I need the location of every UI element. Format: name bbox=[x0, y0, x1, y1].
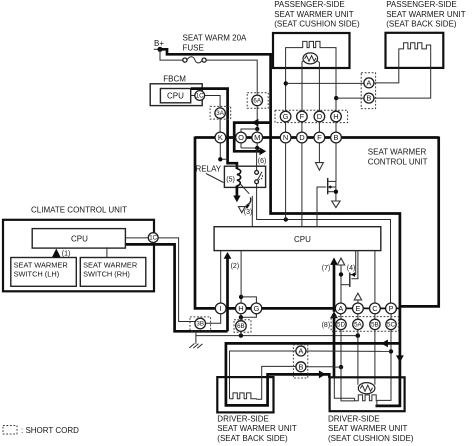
short cord 6A bbox=[247, 93, 268, 109]
wire wrap rectangle around O/M (thick) bbox=[234, 123, 270, 152]
short cord 3B bbox=[190, 317, 211, 331]
svg-text:CPU: CPU bbox=[294, 235, 311, 244]
wire 6A to junction bbox=[256, 106, 258, 129]
arrow down B+ feed bbox=[396, 355, 404, 362]
svg-text:CONTROL UNIT: CONTROL UNIT bbox=[368, 157, 428, 166]
wire back heater right to B bbox=[374, 52, 431, 99]
svg-text:(SEAT BACK SIDE): (SEAT BACK SIDE) bbox=[217, 434, 288, 443]
connector B driver bbox=[296, 362, 306, 372]
open triangle ground F bbox=[316, 163, 324, 171]
svg-text:M: M bbox=[254, 133, 260, 142]
svg-text:CPU: CPU bbox=[167, 92, 184, 101]
seat warmer switch LH box bbox=[11, 258, 77, 287]
svg-text:SEAT WARM 20A: SEAT WARM 20A bbox=[183, 33, 248, 42]
open triangle (3) bbox=[238, 207, 245, 213]
wire junction to A passenger bbox=[286, 82, 364, 84]
driver back unit box bbox=[217, 377, 273, 412]
transistor Q2 (4) bbox=[341, 251, 358, 287]
node 5D junction bbox=[339, 365, 343, 369]
open triangle (4) battery bbox=[337, 258, 344, 265]
FBCM unit box bbox=[150, 84, 202, 106]
node 5C A-wire junction bbox=[389, 349, 393, 353]
short cord 6B bbox=[234, 320, 251, 333]
wire coil to arrow (thick) bbox=[236, 186, 239, 197]
svg-text:FUSE: FUSE bbox=[183, 44, 204, 53]
CPU box climate bbox=[32, 229, 125, 249]
connector 5C bbox=[386, 319, 396, 329]
connector G bottom bbox=[251, 303, 262, 314]
svg-text:5A: 5A bbox=[354, 322, 362, 329]
wire B junction into cushion unit bbox=[334, 376, 354, 398]
wire 5C column bbox=[377, 330, 391, 401]
svg-text:(1): (1) bbox=[62, 251, 71, 258]
connector A passenger bbox=[364, 78, 374, 88]
svg-text:SWITCH (RH): SWITCH (RH) bbox=[83, 270, 130, 279]
wire 5B column to thermistor bbox=[374, 330, 376, 385]
open triangle above E bbox=[354, 293, 361, 300]
svg-text:SEAT WARMER: SEAT WARMER bbox=[14, 260, 68, 269]
connector 1C climate bbox=[148, 233, 158, 243]
wire B column to MOSFET drain bbox=[328, 143, 336, 182]
svg-text:3A: 3A bbox=[216, 110, 224, 117]
seat warmer switch RH box bbox=[80, 258, 146, 287]
CPU box seat warmer control unit bbox=[214, 227, 381, 251]
relay action squiggle (3) bbox=[241, 185, 250, 194]
node H top junction bbox=[239, 295, 243, 299]
wire ground rail (thick) bbox=[125, 244, 227, 331]
svg-text:(SEAT CUSHION SIDE): (SEAT CUSHION SIDE) bbox=[328, 434, 414, 443]
connector O bbox=[236, 132, 247, 143]
arrow up (1) LH switch to CPU bbox=[52, 249, 60, 258]
wire (7) sense line (thick) bbox=[333, 264, 336, 311]
svg-text:(3): (3) bbox=[244, 209, 253, 216]
wire (2) ground drop (thick) bbox=[226, 258, 229, 331]
wire bus drop to I (thick) bbox=[195, 137, 215, 309]
svg-text:: SHORT CORD: : SHORT CORD bbox=[21, 426, 79, 435]
svg-text:(SEAT BACK SIDE): (SEAT BACK SIDE) bbox=[386, 20, 457, 29]
svg-text:(SEAT CUSHION SIDE): (SEAT CUSHION SIDE) bbox=[274, 20, 360, 29]
wire thermistor left to F column bbox=[302, 60, 303, 112]
wire comb right to H column bbox=[325, 48, 336, 112]
arrow up (8) bbox=[330, 311, 338, 318]
connector row G F D H dotted box bbox=[275, 110, 348, 122]
passenger cushion unit box bbox=[273, 33, 350, 68]
svg-text:CPU: CPU bbox=[71, 234, 88, 243]
passenger back unit box bbox=[386, 33, 444, 68]
svg-text:O: O bbox=[238, 133, 244, 142]
wire junction to M bbox=[256, 129, 258, 132]
wire B+ branch to driver back unit (thick) bbox=[226, 343, 400, 405]
wire 5A column to thermistor bbox=[357, 330, 359, 385]
wire driver back heater left to A bbox=[230, 351, 296, 399]
svg-text:I: I bbox=[220, 304, 222, 313]
arrow left on wrap top bbox=[252, 119, 259, 127]
arrow left on B+ branch bbox=[381, 340, 388, 348]
heater element passenger cushion bbox=[299, 41, 325, 47]
svg-text:D: D bbox=[299, 133, 305, 142]
wire 1C FBCM to 3A to K bbox=[205, 96, 221, 109]
connector A bottom bbox=[335, 303, 346, 314]
wire 3A to K bbox=[219, 118, 221, 132]
svg-text:F: F bbox=[300, 112, 305, 121]
driver cushion unit box bbox=[330, 377, 405, 411]
thermistor driver cushion bbox=[358, 383, 375, 394]
wire D column to CPU bbox=[301, 143, 303, 227]
arrow right on wrap bottom bbox=[259, 147, 266, 155]
transistor Q1 MOSFET bbox=[317, 178, 338, 227]
node u-loop junction bbox=[255, 146, 259, 150]
connector K bbox=[215, 132, 226, 143]
wire climate 1C sense to 3B bbox=[158, 238, 195, 322]
connector N bbox=[280, 132, 291, 143]
wire driver back heater right to B bbox=[256, 366, 296, 399]
connector H top bbox=[331, 111, 342, 122]
svg-text:(6): (6) bbox=[258, 158, 267, 165]
wire RH switch to CPU bbox=[106, 247, 108, 257]
svg-text:FBCM: FBCM bbox=[163, 74, 186, 83]
svg-text:(2): (2) bbox=[231, 263, 240, 270]
svg-text:C: C bbox=[372, 304, 378, 313]
svg-text:5D: 5D bbox=[337, 322, 345, 329]
svg-text:PASSENGER-SIDE: PASSENGER-SIDE bbox=[274, 0, 345, 9]
wire comb left to G column bbox=[286, 48, 299, 112]
connector C bbox=[370, 303, 381, 314]
wire (8) continuation to B junction (thick) bbox=[333, 318, 336, 377]
CPU box FBCM bbox=[160, 89, 190, 103]
wire K below to relay junction bbox=[220, 143, 227, 159]
svg-text:(7): (7) bbox=[322, 265, 331, 272]
curved arrow (3) bbox=[247, 198, 251, 206]
svg-text:B: B bbox=[366, 94, 371, 103]
wire fuse input bbox=[160, 49, 183, 60]
svg-text:6B: 6B bbox=[237, 323, 245, 330]
svg-text:SEAT WARMER UNIT: SEAT WARMER UNIT bbox=[386, 10, 466, 19]
wire 5D junction stub to B junction bbox=[334, 366, 341, 368]
connector M bbox=[252, 132, 263, 143]
wire O/M bottom u-loop bbox=[241, 143, 257, 148]
svg-text:A: A bbox=[338, 304, 343, 313]
node G column junction bbox=[284, 81, 288, 85]
arrow up (7) bbox=[330, 257, 338, 265]
wire 5D column bbox=[340, 330, 342, 368]
wire thermistor right to D column bbox=[317, 60, 319, 112]
wire B+ main feed (thick) bbox=[160, 49, 400, 377]
connector I bbox=[215, 303, 226, 314]
wire junction to 6B bbox=[240, 317, 242, 335]
climate control unit box bbox=[3, 220, 154, 291]
relay box bbox=[224, 166, 265, 187]
wire bottom bus segments right (medium) bbox=[346, 307, 400, 309]
wire (4) A-line bbox=[340, 265, 342, 303]
wire ground rail thin to 5A column bbox=[196, 335, 358, 337]
fuse SEAT WARM 20A bbox=[183, 57, 206, 63]
svg-text:RELAY: RELAY bbox=[196, 165, 222, 174]
leader line RELAY bbox=[206, 174, 224, 183]
svg-text:P: P bbox=[388, 304, 393, 313]
wire junction to O (n-loop) bbox=[241, 129, 257, 132]
heater element passenger back bbox=[399, 43, 431, 52]
connector B bus bbox=[331, 132, 342, 143]
svg-text:K: K bbox=[218, 133, 223, 142]
svg-text:5C: 5C bbox=[387, 322, 395, 329]
arrow up (2) bbox=[224, 252, 232, 259]
svg-text:G: G bbox=[283, 112, 289, 121]
svg-text:H: H bbox=[238, 304, 243, 313]
thermistor passenger cushion bbox=[303, 53, 318, 64]
connector E bbox=[353, 303, 364, 314]
svg-text:E: E bbox=[355, 304, 360, 313]
connector F top bbox=[297, 111, 308, 122]
short cord 3A bbox=[210, 106, 231, 119]
wire ground stem bbox=[195, 332, 197, 344]
wires climate CPU to 1C bbox=[125, 237, 148, 239]
svg-text:SEAT WARMER UNIT: SEAT WARMER UNIT bbox=[217, 424, 297, 433]
wire CPU to I bbox=[220, 251, 222, 303]
connector F bus bbox=[314, 132, 325, 143]
wire 5D into cushion unit to heater bbox=[341, 367, 355, 401]
connector row 5D 5A 5B 5C dotted box bbox=[331, 317, 399, 332]
node ground 6B junction bbox=[239, 333, 243, 337]
wire switch bottom to P net bbox=[257, 184, 391, 303]
svg-text:SEAT WARMER: SEAT WARMER bbox=[83, 260, 137, 269]
svg-text:DRIVER-SIDE: DRIVER-SIDE bbox=[328, 415, 380, 424]
connector 5D bbox=[336, 319, 346, 329]
arrow right on driver unit feed wire bbox=[319, 370, 326, 378]
node H column junction bbox=[334, 96, 338, 100]
wire A driver to 5C junction bbox=[306, 350, 391, 352]
svg-text:SEAT WARMER UNIT: SEAT WARMER UNIT bbox=[328, 424, 408, 433]
svg-text:D: D bbox=[317, 112, 323, 121]
svg-text:(8): (8) bbox=[322, 322, 331, 329]
short cord connectors A/B passenger dotted box bbox=[361, 73, 375, 109]
wire fuse to 6A bbox=[206, 60, 257, 95]
svg-text:5B: 5B bbox=[371, 322, 379, 329]
svg-text:1C: 1C bbox=[149, 235, 157, 242]
node junction above M bbox=[255, 127, 259, 131]
svg-text:3B: 3B bbox=[196, 321, 204, 328]
ground chassis symbol bbox=[189, 344, 202, 349]
svg-text:A: A bbox=[298, 347, 303, 356]
svg-text:G: G bbox=[253, 304, 259, 313]
svg-text:6A: 6A bbox=[253, 98, 261, 105]
wire FBCM relay drive (thick) bbox=[191, 89, 237, 169]
node N column junction bbox=[284, 217, 288, 221]
wire N column to relay net bbox=[285, 143, 287, 220]
arrow down relay output bbox=[233, 196, 240, 203]
legend short cord dotted box bbox=[3, 426, 17, 435]
connector 1C FBCM bbox=[195, 91, 205, 101]
wire B driver to (7) net bbox=[306, 366, 334, 368]
svg-text:SEAT WARMER: SEAT WARMER bbox=[368, 147, 427, 156]
connector G top bbox=[280, 111, 291, 122]
svg-text:H: H bbox=[333, 112, 338, 121]
connector A driver bbox=[296, 346, 306, 356]
heater element driver back bbox=[230, 393, 257, 399]
connector D bus bbox=[297, 132, 308, 143]
wire bottom bus segments (thick) bbox=[226, 307, 335, 310]
svg-text:B+: B+ bbox=[154, 39, 164, 48]
wire C column to CPU bbox=[374, 251, 376, 303]
svg-text:PASSENGER-SIDE: PASSENGER-SIDE bbox=[386, 0, 457, 9]
wire B+ feed inside driver cushion unit bbox=[376, 376, 400, 406]
wires bus row to 5 row bbox=[341, 314, 391, 319]
short cord A/B driver dotted box bbox=[293, 345, 307, 378]
connector H bottom bbox=[236, 303, 247, 314]
wire junction to G top bbox=[241, 297, 256, 303]
wire junction to B passenger bbox=[336, 97, 364, 99]
svg-text:SWITCH (LH): SWITCH (LH) bbox=[14, 270, 60, 279]
connector 5A bbox=[353, 319, 363, 329]
open triangle ground MOSFET bbox=[332, 201, 340, 208]
node ground 5A junction bbox=[356, 333, 361, 338]
wire relay to CPU top bbox=[251, 196, 253, 227]
connector B passenger bbox=[364, 93, 374, 103]
svg-text:A: A bbox=[366, 79, 371, 88]
wire FBCM CPU to 1C bbox=[191, 95, 195, 97]
svg-text:B: B bbox=[333, 133, 338, 142]
node B+ bbox=[154, 39, 165, 52]
relay switch (6) contacts bbox=[255, 158, 267, 184]
connector D top bbox=[314, 111, 325, 122]
wire back heater left to A bbox=[374, 52, 399, 83]
svg-text:DRIVER-SIDE: DRIVER-SIDE bbox=[217, 415, 269, 424]
heater element driver cushion bbox=[355, 395, 377, 406]
svg-text:CLIMATE CONTROL UNIT: CLIMATE CONTROL UNIT bbox=[31, 206, 127, 215]
wire main bus (control unit top edge) bbox=[195, 136, 439, 139]
wire E stub bbox=[357, 300, 359, 303]
svg-text:B: B bbox=[298, 362, 303, 371]
node relay feed junction bbox=[218, 157, 222, 161]
wire H/G bottoms u-loop bbox=[241, 314, 257, 318]
wire F column to ground arrow bbox=[318, 143, 320, 163]
svg-text:N: N bbox=[283, 133, 288, 142]
connector 5B bbox=[370, 319, 380, 329]
wire CPU to H/G bbox=[240, 251, 242, 303]
svg-text:(4): (4) bbox=[347, 265, 356, 272]
svg-text:F: F bbox=[317, 133, 322, 142]
wires G row to bus row bbox=[286, 122, 336, 132]
relay coil (5) bbox=[237, 169, 241, 186]
svg-text:1C: 1C bbox=[196, 93, 204, 100]
svg-text:(5): (5) bbox=[226, 177, 235, 184]
node 6B top junction bbox=[239, 315, 243, 319]
seat warmer control unit right edge bbox=[399, 137, 439, 307]
svg-text:SEAT WARMER UNIT: SEAT WARMER UNIT bbox=[274, 10, 354, 19]
wire u-loop to switch top bbox=[256, 148, 258, 171]
node (4) junction bbox=[339, 272, 343, 276]
connector P bbox=[386, 303, 397, 314]
wire I bottom to 3B bbox=[206, 314, 221, 323]
